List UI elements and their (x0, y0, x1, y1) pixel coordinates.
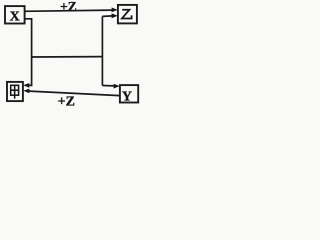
glyph 甲 (11, 85, 19, 98)
box 乙 (118, 5, 137, 24)
glyph 乙 (122, 10, 132, 19)
svg-text:+Z: +Z (58, 95, 75, 110)
wire bottom arrow Y to 甲 (29, 91, 120, 96)
svg-text:Y: Y (122, 90, 132, 105)
arrowhead into 甲 lower (from bottom arrow) (23, 89, 29, 94)
arrowhead into 甲 upper (from left rail) (23, 83, 29, 88)
wire middle connector (32, 56, 103, 58)
wire left rail: X right, down, into 甲 (25, 19, 32, 86)
wire right rail top bend into 乙 (102, 15, 112, 18)
arrowhead into 乙 lower (112, 13, 118, 18)
svg-text:X: X (10, 10, 20, 25)
box Y (120, 85, 138, 102)
arrowhead into 乙 upper (112, 8, 118, 13)
wire top arrow X to 乙 (24, 10, 112, 11)
svg-text:+Z: +Z (60, 0, 77, 14)
box 甲 (7, 82, 23, 101)
box X (5, 6, 25, 23)
wire right rail bottom bend into Y (102, 85, 114, 87)
wire right rail vertical (101, 16, 103, 85)
arrowhead into Y (114, 84, 120, 89)
